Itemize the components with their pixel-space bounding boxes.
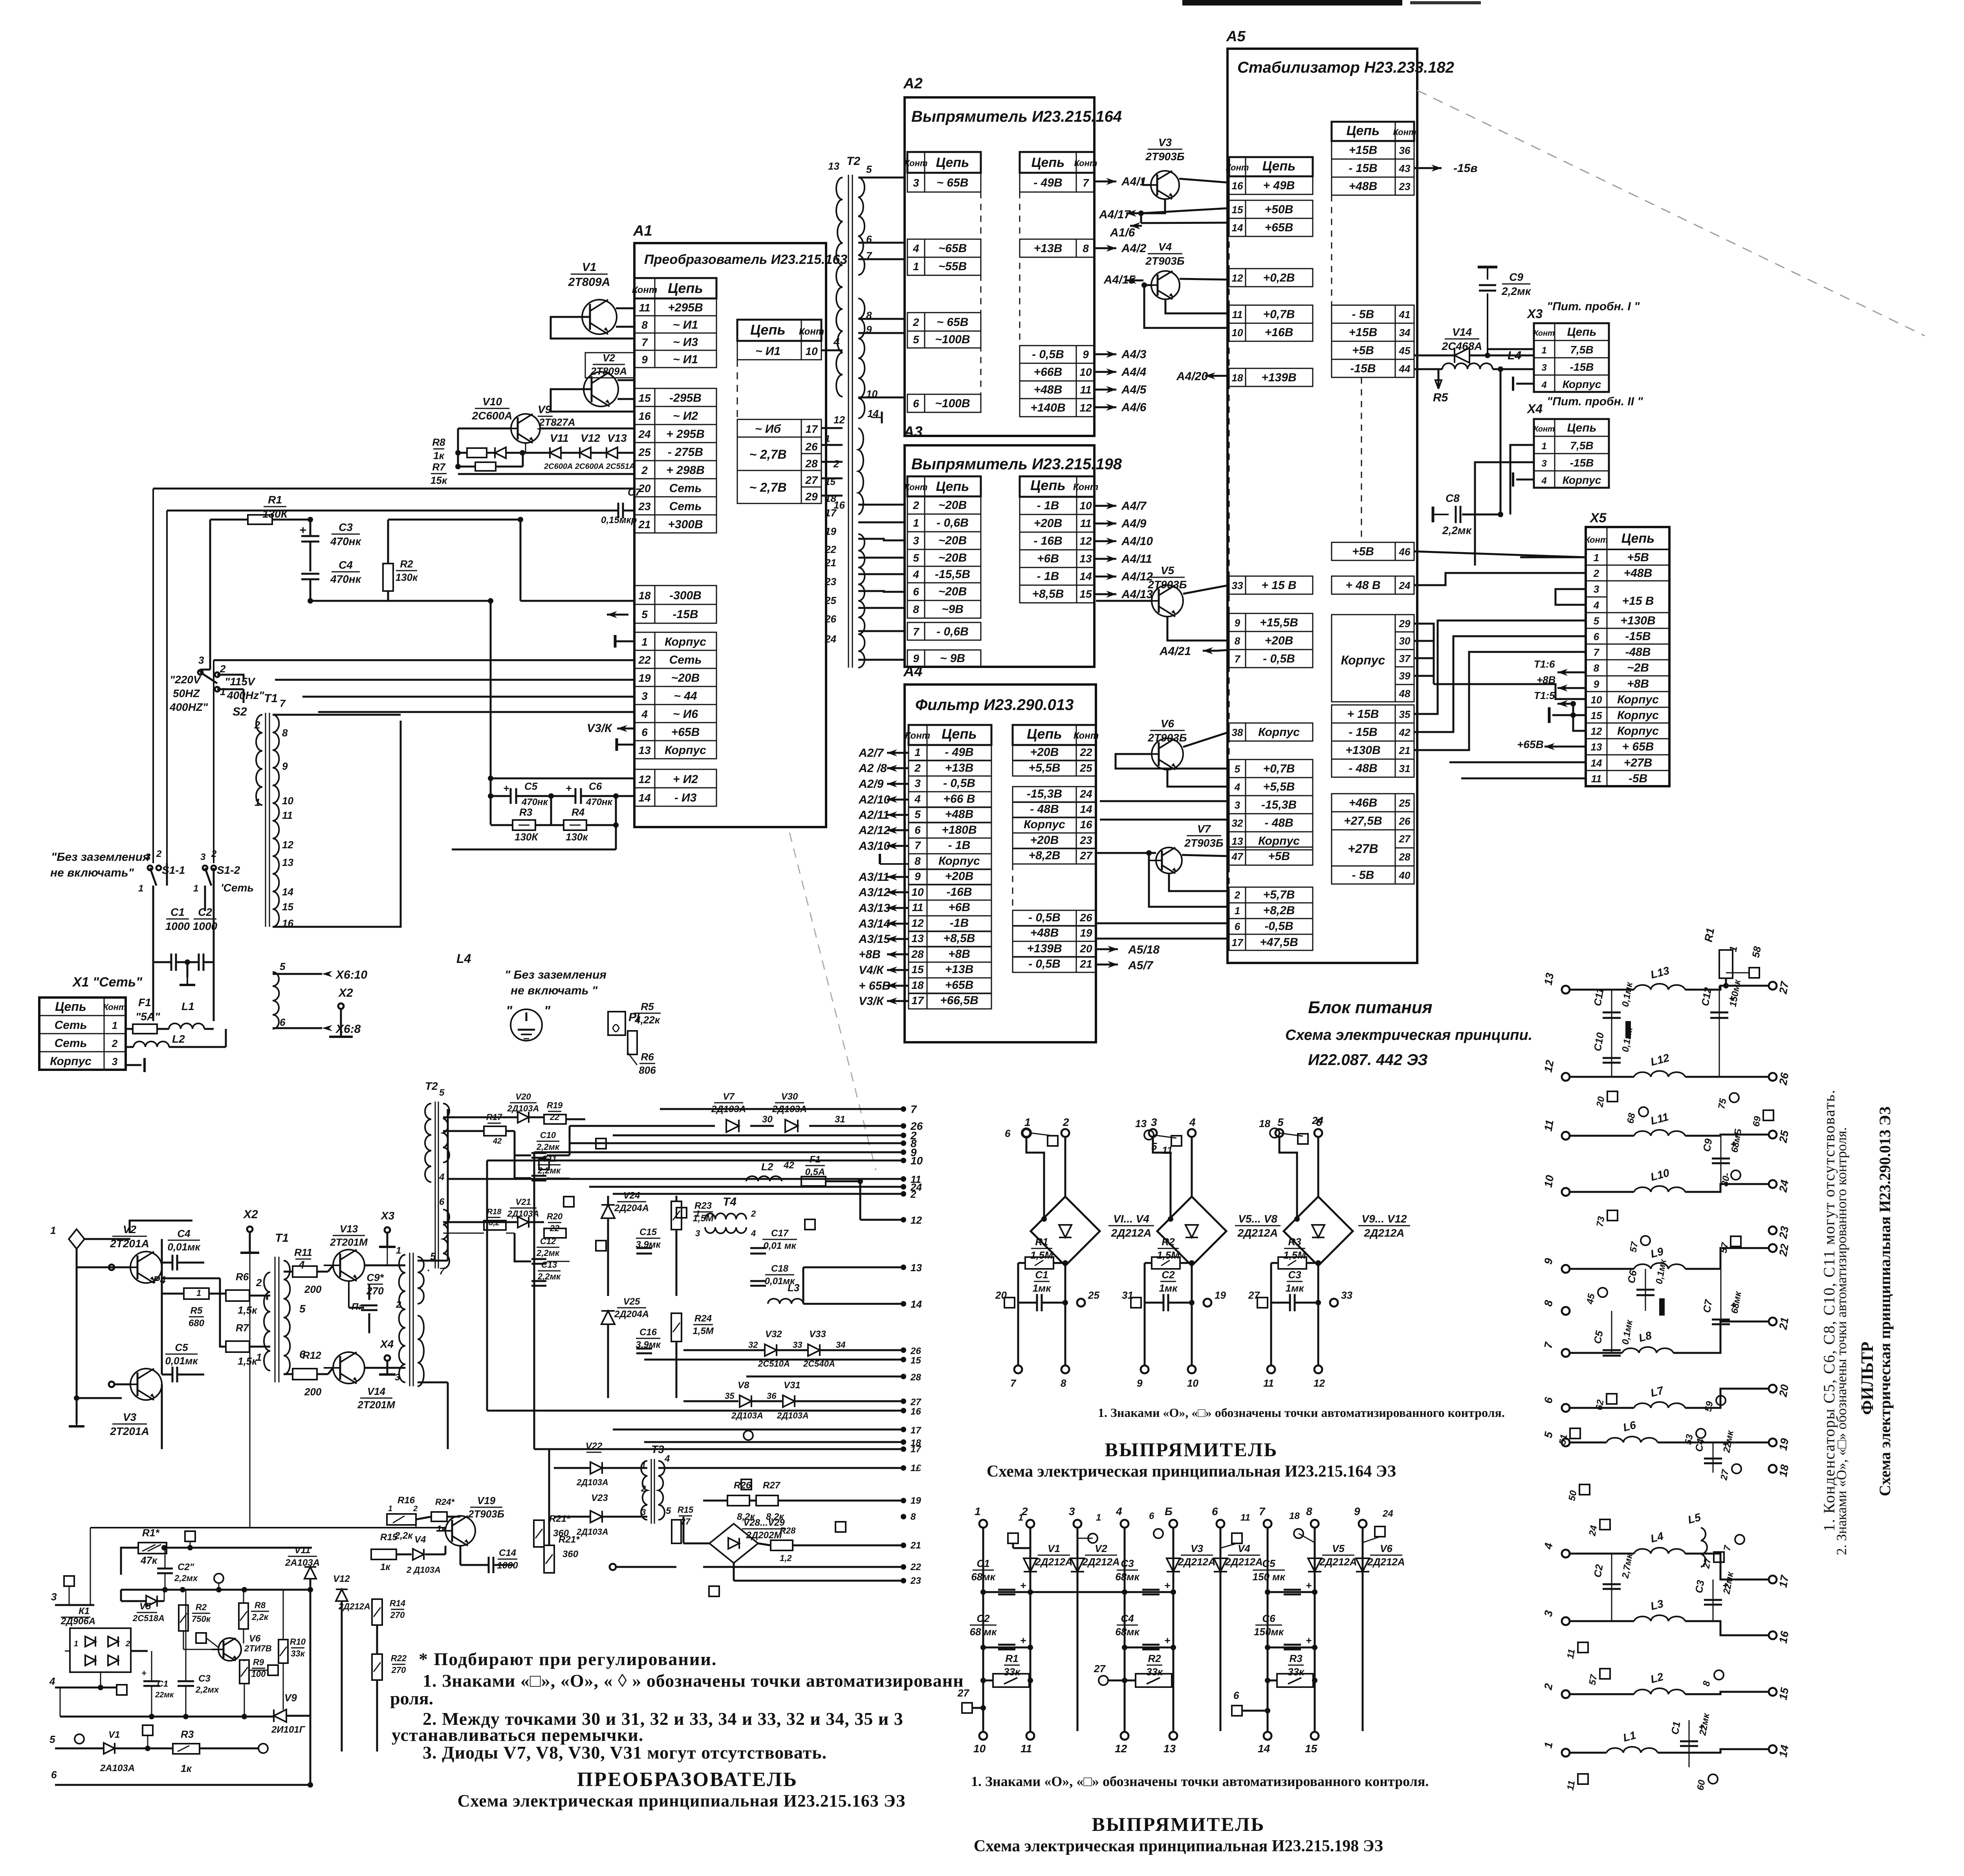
svg-text:~ 65В: ~ 65В [937, 316, 969, 329]
A5 Корпус merged cell [1332, 615, 1414, 702]
svg-text:+13В: +13В [945, 963, 974, 976]
svg-text:V30: V30 [781, 1091, 798, 1102]
svg-text:Т2: Т2 [846, 155, 860, 168]
svg-text:6: 6 [913, 397, 919, 410]
svg-text:8: 8 [1594, 662, 1599, 674]
svg-text:1000: 1000 [165, 920, 190, 932]
svg-text:3: 3 [914, 777, 921, 789]
svg-text:~2В: ~2В [1627, 661, 1649, 674]
svg-text:3: 3 [913, 177, 919, 189]
svg-text:25: 25 [1777, 1129, 1791, 1144]
svg-text:36: 36 [1399, 145, 1411, 156]
svg-text:+: + [1729, 992, 1735, 1004]
svg-text:27: 27 [1248, 1289, 1260, 1301]
svg-text:А1: А1 [633, 223, 652, 239]
svg-text:3: 3 [198, 654, 204, 666]
svg-text:44: 44 [1399, 363, 1411, 375]
svg-text:R3: R3 [1289, 1653, 1303, 1664]
svg-text:Корпус: Корпус [1617, 725, 1659, 738]
svg-text:Цепь: Цепь [750, 322, 786, 338]
svg-text:26: 26 [1399, 815, 1411, 827]
svg-text:R1: R1 [1035, 1236, 1048, 1248]
svg-text:11: 11 [282, 809, 293, 821]
svg-text:4: 4 [1541, 380, 1546, 390]
svg-text:32: 32 [748, 1340, 758, 1350]
svg-text:17: 17 [805, 423, 818, 435]
svg-text:2: 2 [112, 1038, 118, 1049]
svg-text:23: 23 [910, 1576, 921, 1586]
svg-text:33к: 33к [291, 1649, 305, 1658]
svg-text:8: 8 [641, 319, 648, 331]
svg-text:69: 69 [1751, 1115, 1763, 1127]
svg-text:Конт: Конт [1073, 482, 1098, 492]
svg-text:33к: 33к [1146, 1666, 1163, 1678]
svg-text:+8,2В: +8,2В [1263, 904, 1295, 917]
svg-text:+66,5В: +66,5В [940, 994, 978, 1007]
svg-text:С1: С1 [1035, 1269, 1048, 1281]
svg-text:7: 7 [1235, 653, 1241, 665]
mid horizontal wires [90, 1527, 445, 1528]
A1 rows 19/3/4 wires left [275, 679, 634, 681]
svg-text:2: 2 [396, 1299, 401, 1310]
filter rungs and inductors [1570, 989, 1634, 991]
svg-text:15: 15 [1232, 204, 1243, 216]
svg-text:18: 18 [1259, 1118, 1270, 1129]
rectifier 198 rails [979, 1520, 987, 1528]
svg-text:С14: С14 [499, 1548, 516, 1558]
svg-text:V9: V9 [284, 1692, 297, 1704]
svg-text:- 15В: - 15В [1348, 726, 1377, 739]
svg-text:А4/7: А4/7 [1121, 500, 1147, 512]
svg-text:21: 21 [1777, 1316, 1791, 1331]
svg-text:1£: 1£ [911, 1463, 921, 1473]
svg-text:V10: V10 [482, 395, 502, 408]
svg-text:А4/21: А4/21 [1159, 645, 1191, 658]
svg-text:2: 2 [220, 663, 226, 675]
svg-text:+0,2В: +0,2В [1263, 271, 1295, 284]
svg-text:V21: V21 [515, 1197, 531, 1207]
svg-text:С6: С6 [1625, 1269, 1639, 1284]
svg-text:": " [506, 1003, 513, 1018]
svg-text:19: 19 [825, 525, 836, 537]
svg-text:0,1мк: 0,1мк [1654, 1258, 1669, 1285]
svg-text:Конт: Конт [1393, 127, 1416, 137]
svg-text:28: 28 [910, 1372, 921, 1383]
svg-text:А4/9: А4/9 [1121, 517, 1147, 530]
bridge top extra marks [1048, 1136, 1058, 1146]
svg-text:2Т903Б: 2Т903Б [1184, 837, 1223, 849]
svg-text:2: 2 [910, 1188, 916, 1200]
svg-text:Т1:5: Т1:5 [1534, 690, 1555, 701]
svg-text:38: 38 [1232, 727, 1243, 738]
squares converter [676, 1208, 687, 1218]
svg-text:33: 33 [1341, 1289, 1352, 1301]
svg-text:С2: С2 [977, 1612, 990, 1624]
svg-text:L4: L4 [456, 952, 471, 966]
svg-text:2: 2 [833, 458, 839, 470]
svg-text:22: 22 [1079, 746, 1092, 758]
svg-text:2Т809А: 2Т809А [590, 365, 627, 377]
svg-text:А3/13: А3/13 [858, 902, 890, 915]
svg-text:7: 7 [1259, 1505, 1266, 1517]
svg-text:20: 20 [1594, 1095, 1607, 1108]
A3 output arrows [1094, 505, 1116, 507]
svg-text:2Д212А: 2Д212А [1035, 1556, 1072, 1568]
svg-text:1. Знаками «□», «О», « ◊ »: 1. Знаками «□», «О», « ◊ » обозначены то… [423, 1671, 964, 1691]
svg-text:57: 57 [1628, 1240, 1640, 1253]
svg-text:"Без заземления: "Без заземления [51, 851, 150, 864]
svg-text:2,2мх: 2,2мх [174, 1573, 198, 1583]
svg-text:~65В: ~65В [938, 242, 967, 255]
svg-text:1к: 1к [433, 450, 445, 461]
svg-text:20: 20 [1777, 1384, 1791, 1398]
svg-text:V33: V33 [809, 1329, 826, 1340]
svg-text:12: 12 [1591, 725, 1602, 737]
svg-text:+13В: +13В [1034, 242, 1063, 255]
svg-text:+27В: +27В [1348, 842, 1378, 856]
squares top osc [64, 1576, 74, 1586]
fold diagonal to converter [790, 833, 876, 1170]
svg-text:С18: С18 [771, 1263, 789, 1274]
svg-text:V5: V5 [1332, 1543, 1345, 1554]
svg-text:- 16В: - 16В [1033, 534, 1062, 547]
svg-text:0,01мк: 0,01мк [165, 1355, 198, 1367]
svg-text:+: + [1698, 1721, 1704, 1733]
svg-text:0,1мк: 0,1мк [1620, 981, 1635, 1008]
svg-text:7: 7 [1083, 177, 1089, 189]
svg-text:53: 53 [1683, 1433, 1695, 1446]
svg-text:~20В: ~20В [938, 499, 967, 512]
svg-text:X6:10: X6:10 [335, 968, 367, 981]
svg-text:X1 "Сеть": X1 "Сеть" [72, 975, 143, 990]
svg-text:.: . [427, 1262, 430, 1274]
svg-text:7: 7 [1010, 1377, 1017, 1389]
svg-text:~ И6: ~ И6 [673, 708, 698, 721]
svg-text:39: 39 [1399, 670, 1411, 682]
svg-text:V12: V12 [333, 1574, 350, 1584]
svg-text:V28...V29: V28...V29 [743, 1517, 785, 1528]
svg-text:1мк: 1мк [1033, 1282, 1052, 1294]
svg-text:С4: С4 [339, 559, 353, 571]
svg-text:5: 5 [280, 961, 286, 972]
svg-text:19: 19 [1777, 1437, 1791, 1451]
svg-text:С8: С8 [1446, 492, 1460, 504]
Корпус bracket wires [1414, 624, 1434, 684]
wire V2 [617, 379, 634, 381]
svg-text:20: 20 [995, 1289, 1007, 1301]
svg-text:14: 14 [911, 1298, 922, 1310]
ground at A1 row 13 [616, 738, 618, 751]
svg-text:6: 6 [1594, 631, 1599, 642]
svg-text:9: 9 [913, 652, 919, 664]
wire A1 row22 left long [214, 659, 634, 661]
svg-text:17: 17 [1777, 1574, 1791, 1589]
svg-text:V1: V1 [108, 1730, 120, 1740]
svg-text:11: 11 [1162, 1144, 1173, 1156]
svg-text:22: 22 [910, 1562, 921, 1572]
svg-text:13: 13 [911, 932, 924, 944]
svg-text:12: 12 [911, 917, 924, 929]
A4 right table [1013, 725, 1096, 745]
svg-text:4: 4 [49, 1675, 55, 1687]
svg-text:17: 17 [911, 1425, 922, 1436]
svg-text:2: 2 [914, 762, 921, 774]
svg-text:28: 28 [1399, 851, 1411, 863]
svg-text:+130В: +130В [1620, 614, 1655, 627]
svg-text:+8,2В: +8,2В [1029, 849, 1061, 862]
svg-text:А3/15: А3/15 [858, 933, 890, 946]
svg-text:11: 11 [1240, 1512, 1250, 1523]
svg-text:- 5В: - 5В [1352, 308, 1374, 321]
second osc bus [121, 1589, 313, 1591]
svg-text:15: 15 [1305, 1742, 1317, 1755]
svg-text:Сеть: Сеть [669, 482, 702, 495]
svg-text:L10: L10 [1649, 1166, 1671, 1183]
svg-text:1к: 1к [380, 1562, 391, 1572]
svg-text:1,5М: 1,5М [693, 1326, 714, 1336]
svg-text:- 1В: - 1В [1037, 499, 1059, 512]
resistor R2osc 750к [179, 1605, 188, 1631]
svg-text:26: 26 [805, 441, 818, 453]
svg-text:С3: С3 [1693, 1579, 1706, 1594]
svg-text:А3/12: А3/12 [858, 886, 890, 899]
svg-text:А4: А4 [903, 663, 923, 680]
svg-text:+20В: +20В [1034, 517, 1063, 530]
svg-text:2,2к: 2,2к [251, 1612, 269, 1622]
svg-text:+46В: +46В [1349, 796, 1378, 809]
svg-text:V11: V11 [295, 1545, 311, 1556]
svg-text:2ТИ7В: 2ТИ7В [244, 1644, 272, 1653]
A3 right table [1020, 476, 1094, 497]
svg-text:Корпус: Корпус [1617, 693, 1659, 706]
svg-text:S2: S2 [233, 705, 247, 718]
svg-text:31: 31 [1399, 763, 1411, 774]
svg-text:Сеть: Сеть [669, 500, 702, 513]
svg-text:1: 1 [1096, 1512, 1101, 1523]
svg-text:+65В: +65В [671, 726, 700, 739]
svg-text:V4/К: V4/К [859, 964, 885, 977]
wire A1 row20 left long [153, 488, 634, 490]
svg-text:22: 22 [1777, 1243, 1791, 1257]
svg-text:Цепь: Цепь [1262, 159, 1296, 174]
svg-text:Корпус: Корпус [1563, 378, 1601, 390]
svg-text:Т1: Т1 [275, 1232, 289, 1245]
svg-text:-300В: -300В [669, 589, 702, 602]
wires upper connects [249, 1253, 251, 1528]
svg-text:73: 73 [1594, 1215, 1607, 1228]
svg-text:+: + [1020, 1580, 1026, 1591]
svg-text:9: 9 [914, 870, 921, 882]
svg-text:6: 6 [439, 1197, 445, 1207]
svg-text:9: 9 [641, 353, 648, 366]
cross-couple wires [162, 1278, 220, 1279]
svg-text:R1: R1 [268, 494, 282, 506]
svg-text:1: 1 [1235, 905, 1240, 917]
svg-text:45: 45 [1399, 345, 1411, 357]
svg-text:13: 13 [828, 160, 839, 172]
svg-text:- 275В: - 275В [668, 446, 703, 459]
svg-text:F1: F1 [810, 1154, 821, 1165]
svg-text:0,5А: 0,5А [805, 1167, 825, 1177]
svg-text:Цепь: Цепь [1030, 477, 1066, 493]
svg-text:5: 5 [641, 608, 648, 620]
svg-text:А4/2: А4/2 [1121, 242, 1147, 255]
node 1 diamond terminal [69, 1229, 84, 1249]
svg-text:С3: С3 [198, 1673, 211, 1684]
svg-text:1к: 1к [181, 1763, 192, 1774]
svg-text:L7: L7 [1649, 1384, 1665, 1399]
svg-text:А5/18: А5/18 [1128, 943, 1160, 956]
svg-text:1: 1 [388, 1504, 392, 1513]
svg-text:R2: R2 [400, 558, 413, 570]
svg-text:V9: V9 [538, 403, 551, 415]
svg-text:1: 1 [913, 260, 919, 273]
svg-text:3: 3 [1151, 1116, 1157, 1128]
svg-text:22: 22 [550, 1112, 560, 1122]
svg-text:8: 8 [1083, 242, 1089, 254]
svg-text:4: 4 [641, 708, 648, 720]
svg-text:9: 9 [1235, 617, 1240, 629]
svg-text:~20В: ~20В [938, 534, 967, 547]
-15в arrow at A5 [1414, 167, 1442, 169]
svg-text:-16В: -16В [946, 886, 972, 899]
svg-text:ВЫПРЯМИТЕЛЬ: ВЫПРЯМИТЕЛЬ [1092, 1813, 1265, 1835]
svg-text:X6:8: X6:8 [335, 1023, 361, 1036]
svg-text:18: 18 [638, 589, 651, 602]
ground circle symbol [511, 1009, 542, 1041]
svg-text:- 0,5В: - 0,5В [1263, 652, 1295, 665]
svg-text:"115V: "115V [225, 675, 256, 688]
svg-text:27: 27 [1777, 980, 1791, 995]
svg-text:2Д103А: 2Д103А [576, 1477, 608, 1487]
svg-text:25: 25 [1079, 762, 1092, 774]
svg-text:R12: R12 [302, 1349, 321, 1361]
svg-text:25: 25 [1399, 797, 1411, 809]
svg-text:2Д204А: 2Д204А [614, 1203, 649, 1213]
svg-text:10: 10 [1232, 327, 1243, 339]
svg-text:С16: С16 [639, 1327, 657, 1338]
rectifier bridge V9... V12 [1284, 1197, 1353, 1266]
svg-text:+ 298В: + 298В [666, 464, 705, 477]
resistor R8osc 2,2к [239, 1603, 248, 1629]
svg-text:- 0,6В: - 0,6В [936, 625, 969, 638]
svg-text:R4: R4 [572, 806, 585, 818]
svg-text:V19: V19 [477, 1495, 496, 1506]
svg-text:V20: V20 [515, 1092, 531, 1102]
wire S2 [217, 675, 244, 680]
svg-text:R6: R6 [641, 1051, 654, 1063]
diode V5 2С518А [146, 1596, 157, 1607]
svg-text:15: 15 [282, 901, 293, 913]
svg-text:+139В: +139В [1261, 371, 1296, 384]
svg-text:А3: А3 [903, 424, 923, 440]
svg-text:17: 17 [1232, 937, 1244, 948]
svg-text:R22: R22 [391, 1653, 407, 1663]
svg-text:5: 5 [49, 1733, 55, 1745]
svg-text:22мк: 22мк [155, 1691, 174, 1699]
svg-text:Конт: Конт [632, 285, 657, 295]
svg-text:2Д103А: 2Д103А [507, 1209, 539, 1219]
svg-text:470нк: 470нк [330, 535, 362, 547]
svg-text:Сеть: Сеть [669, 653, 702, 666]
svg-text:R8: R8 [432, 436, 445, 448]
svg-text:Преобразователь И23.215.163: Преобразователь И23.215.163 [644, 252, 847, 267]
svg-text:24: 24 [638, 428, 651, 440]
svg-text:5: 5 [913, 552, 919, 564]
svg-text:Корпус: Корпус [1258, 726, 1300, 739]
svg-text:15: 15 [1591, 710, 1602, 721]
svg-text:+47,5В: +47,5В [1260, 936, 1298, 949]
svg-text:+48В: +48В [1624, 567, 1653, 580]
svg-text:L12: L12 [1649, 1051, 1671, 1068]
svg-text:С9*: С9* [366, 1272, 384, 1283]
svg-text:23: 23 [824, 576, 836, 588]
svg-text:С1: С1 [157, 1679, 168, 1689]
svg-text:36: 36 [767, 1391, 777, 1401]
svg-text:+: + [1730, 1299, 1736, 1311]
svg-text:16: 16 [638, 410, 651, 422]
svg-text:- 49В: - 49В [1033, 176, 1062, 189]
svg-text:3: 3 [1069, 1505, 1075, 1517]
svg-text:2Д212А: 2Д212А [1111, 1227, 1152, 1239]
svg-text:Цепь: Цепь [668, 280, 703, 296]
svg-text:-295В: -295В [669, 392, 702, 404]
svg-text:2Д103А: 2Д103А [731, 1411, 763, 1420]
svg-text:2: 2 [751, 1209, 756, 1219]
svg-text:7: 7 [914, 839, 921, 851]
svg-text:С5: С5 [1262, 1558, 1275, 1569]
svg-text:С2: С2 [198, 906, 212, 918]
svg-text:-48В: -48В [1625, 646, 1651, 659]
svg-text:С11: С11 [1591, 987, 1606, 1007]
svg-text:-15,5В: -15,5В [935, 568, 970, 581]
svg-text:2Д103А: 2Д103А [576, 1527, 608, 1537]
svg-text:14: 14 [1777, 1744, 1791, 1758]
wires T2 cluster [443, 1116, 518, 1118]
svg-text:А4/4: А4/4 [1121, 366, 1147, 379]
svg-text:Корпус: Корпус [938, 855, 980, 868]
svg-text:R2: R2 [1148, 1653, 1161, 1664]
svg-text:Выпрямитель И23.215.164: Выпрямитель И23.215.164 [911, 108, 1122, 125]
svg-text:V24: V24 [623, 1190, 640, 1201]
svg-text:1: 1 [138, 883, 143, 894]
svg-text:+27В: +27В [1624, 756, 1653, 769]
svg-text:L1: L1 [181, 1000, 194, 1012]
svg-text:130к: 130к [566, 831, 588, 843]
svg-text:26: 26 [824, 613, 836, 625]
svg-text:1,5к: 1,5к [238, 1355, 258, 1367]
svg-text:5: 5 [299, 1303, 306, 1315]
svg-text:2С600А: 2С600А [472, 410, 513, 422]
svg-text:1: 1 [1024, 1116, 1031, 1128]
svg-text:11: 11 [1080, 517, 1091, 529]
svg-text:3: 3 [200, 852, 206, 862]
svg-text:V14: V14 [367, 1385, 386, 1397]
svg-text:R3: R3 [1288, 1236, 1301, 1248]
svg-text:6: 6 [51, 1769, 57, 1781]
ground at X1 [126, 1064, 141, 1066]
svg-text:2: 2 [125, 1640, 130, 1648]
svg-text:X4: X4 [1526, 402, 1543, 416]
svg-text:23: 23 [1079, 834, 1092, 846]
svg-text:L3: L3 [788, 1282, 800, 1294]
svg-text:2,2мх: 2,2мх [195, 1685, 219, 1695]
resistor R24 1,5М [671, 1313, 682, 1342]
svg-text:К1: К1 [79, 1606, 90, 1616]
svg-text:14: 14 [1258, 1742, 1270, 1755]
svg-text:2Д212А: 2Д212А [1367, 1556, 1405, 1568]
svg-text:50HZ: 50HZ [173, 687, 200, 699]
